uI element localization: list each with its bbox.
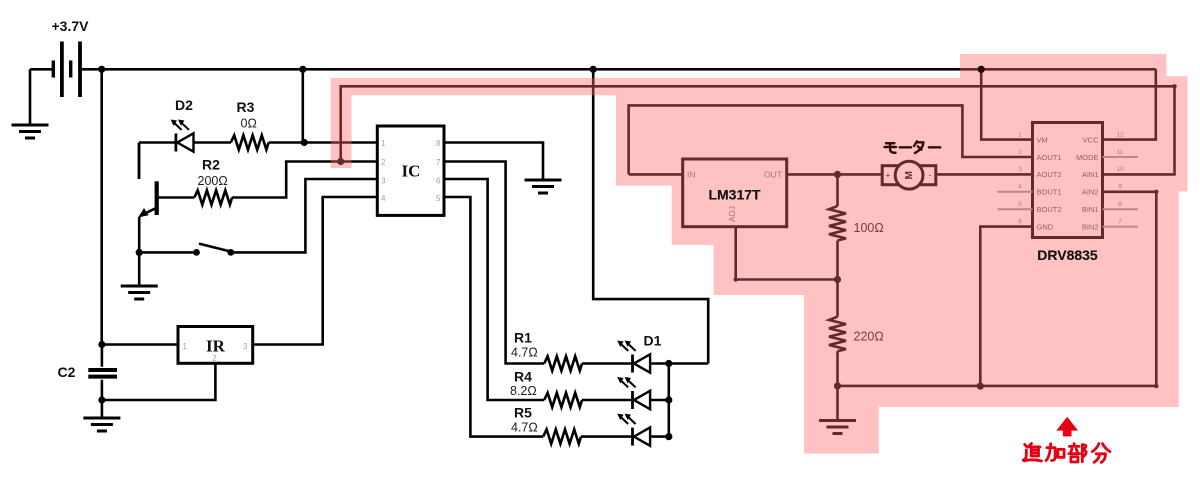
svg-text:DRV8835: DRV8835 — [1037, 247, 1098, 263]
LED D1b — [617, 377, 650, 409]
wire R4 to D1b — [582, 399, 633, 402]
svg-text:6: 6 — [436, 177, 441, 186]
label 追加部分 (added part, red) — [1023, 444, 1110, 463]
svg-text:2: 2 — [381, 158, 386, 167]
svg-text:LM317T: LM317T — [708, 187, 761, 203]
wire LED cathode bus vertical — [667, 364, 670, 437]
wire IC pin7 to R1 — [444, 162, 544, 364]
svg-text:1: 1 — [381, 139, 386, 148]
svg-text:R5: R5 — [514, 405, 532, 421]
svg-text:R2: R2 — [202, 157, 220, 173]
svg-text:D1: D1 — [644, 333, 662, 349]
wire ADJ leg — [736, 227, 838, 280]
DRV8835 pin numbers left — [1018, 131, 1022, 225]
node VM rail junction — [978, 66, 985, 73]
wire battery negative lead — [30, 69, 53, 124]
wire D1c anode to bus — [650, 435, 669, 438]
wire C2 bottom to ground — [101, 400, 104, 418]
node GND feed junction — [977, 383, 984, 390]
DRV8835 U4 box — [1033, 123, 1103, 238]
transistor Q1 — [138, 179, 157, 218]
node C2 bottom junction — [98, 396, 105, 403]
svg-text:R4: R4 — [514, 369, 532, 385]
wire D1b anode to bus — [650, 399, 669, 402]
svg-text:D2: D2 — [175, 97, 193, 113]
svg-text:8.2Ω: 8.2Ω — [510, 384, 537, 398]
node top rail to pin1 feed — [299, 66, 306, 73]
capacitor C2 — [88, 345, 117, 401]
svg-text:IC: IC — [402, 162, 421, 181]
wire VCC riser — [1103, 69, 1156, 139]
wire R1 to D1a — [582, 362, 633, 365]
label motor (katakana) — [885, 141, 941, 153]
svg-text:1: 1 — [183, 342, 188, 351]
motor M1 — [882, 161, 936, 189]
wire IC pin6 to R4 — [444, 179, 544, 400]
svg-text:IR: IR — [206, 337, 226, 356]
DRV8835 unconnected stubs — [998, 157, 1138, 227]
wire top +3.7V rail — [80, 68, 1156, 71]
svg-text:C2: C2 — [58, 364, 76, 380]
node corner AIN1 riser — [1172, 84, 1176, 88]
node top rail to LED bus feed — [590, 66, 597, 73]
resistor 220ohm — [829, 317, 846, 352]
wire D2 row left — [139, 143, 176, 180]
svg-text:8: 8 — [436, 139, 441, 148]
wire D1a anode to bus — [650, 362, 708, 365]
wire IC pin4 to IR pin3 — [253, 197, 378, 345]
ground (added section) — [819, 421, 856, 434]
pin numbers IR — [183, 342, 249, 363]
resistor R4 — [544, 393, 582, 407]
DRV8835 pin numbers right — [1116, 131, 1124, 225]
node R3/pin1 junction — [301, 139, 308, 146]
resistor R1 — [544, 356, 582, 370]
svg-text:3: 3 — [243, 342, 248, 351]
wire rail drop to R3 node — [301, 69, 304, 142]
wire D2 to R3 — [194, 141, 232, 144]
ground (C2) — [83, 418, 120, 431]
ground (battery) — [12, 125, 49, 138]
wire VM riser — [981, 69, 1032, 139]
node divider bottom junction — [834, 382, 841, 389]
node AIN2 corners — [1154, 190, 1158, 389]
node bus row3 — [665, 433, 672, 440]
svg-text:4.7Ω: 4.7Ω — [511, 421, 538, 435]
svg-text:200Ω: 200Ω — [198, 174, 228, 188]
svg-text:4: 4 — [381, 194, 386, 203]
node bus row1 — [665, 360, 672, 367]
wire node to IR pin1 — [102, 343, 178, 346]
battery BT1 — [53, 42, 80, 98]
red arrow (points to added section) — [1056, 417, 1078, 437]
resistor R3 — [231, 135, 269, 149]
highlight overlay (added section) — [331, 54, 1188, 454]
svg-text:4.7Ω: 4.7Ω — [511, 346, 538, 360]
resistor R2 — [194, 190, 232, 204]
wire 220ohm bottom to ground — [836, 351, 839, 420]
node emitter/switch junction — [136, 249, 143, 256]
label motor katakana (emphasis) — [885, 141, 941, 153]
LED D1a — [617, 341, 650, 373]
node bus row2 — [665, 396, 672, 403]
resistor 100ohm — [829, 206, 846, 241]
wire IC pin2 to DRV8835 AIN1 (highlighted net) — [341, 86, 1175, 174]
svg-text:7: 7 — [436, 158, 441, 167]
resistor R5 — [543, 429, 581, 443]
node ADJ corner — [734, 277, 738, 281]
switch S1 — [193, 244, 234, 256]
IR receiver U2 box — [178, 327, 253, 364]
svg-text:R1: R1 — [514, 330, 532, 346]
node pin2 junction — [337, 158, 344, 165]
svg-text:2: 2 — [212, 354, 217, 363]
wire DRV GND to divider node — [980, 227, 1032, 387]
wire LM317T IN lead — [629, 173, 683, 176]
wire rail to LM317T IN and DRV AOUT1 — [629, 105, 1033, 174]
node battery junction — [98, 66, 105, 73]
LM317T U3 box — [683, 159, 787, 227]
svg-text:0Ω: 0Ω — [241, 117, 257, 131]
wire R3 to IC pin1 — [269, 141, 378, 144]
DRV8835 pin names right — [1076, 135, 1099, 231]
wire R5 to D1c — [581, 435, 633, 438]
wire motor to DRV AOUT2 — [936, 173, 1033, 176]
svg-text:+3.7V: +3.7V — [52, 18, 90, 34]
wire IC pin8 to ground — [444, 143, 543, 180]
wire switch row left — [139, 251, 196, 254]
node ADJ/divider junction — [834, 276, 841, 283]
node OUT junction — [834, 171, 841, 178]
DRV8835 pin names left — [1037, 135, 1062, 231]
pin numbers IC right — [436, 139, 441, 203]
node VM rail junction (emphasis) — [978, 66, 985, 73]
wire LM317T OUT row to motor — [787, 173, 882, 176]
svg-text:R3: R3 — [237, 99, 255, 115]
ground (switch node) — [121, 286, 158, 299]
wire R2 to IC pin2 — [232, 162, 377, 198]
wire IC pin5 to R5 — [444, 197, 543, 437]
svg-text:3: 3 — [381, 177, 386, 186]
wire emitter node to ground — [138, 252, 141, 285]
IC U1 box — [377, 126, 444, 215]
wire emitter down to switch node — [138, 217, 141, 252]
node IR pin1 junction — [98, 341, 105, 348]
svg-text:5: 5 — [436, 194, 441, 203]
wire collector up to D2 — [138, 143, 141, 180]
ground (IC pin8) — [525, 180, 562, 193]
wire 100ohm leads — [836, 174, 839, 316]
wire LED cathode bus feed — [593, 69, 708, 363]
wire bottom net to AIN2 — [838, 192, 1157, 386]
LED D1c — [617, 414, 650, 446]
wire left rail down to IR node — [100, 69, 103, 344]
wire switch to IC pin3 — [231, 179, 378, 252]
wire base lead — [159, 196, 195, 199]
wire IR pin2 to C2 node — [102, 363, 215, 400]
pin numbers IC left — [381, 139, 386, 203]
LED D2 — [171, 120, 194, 152]
